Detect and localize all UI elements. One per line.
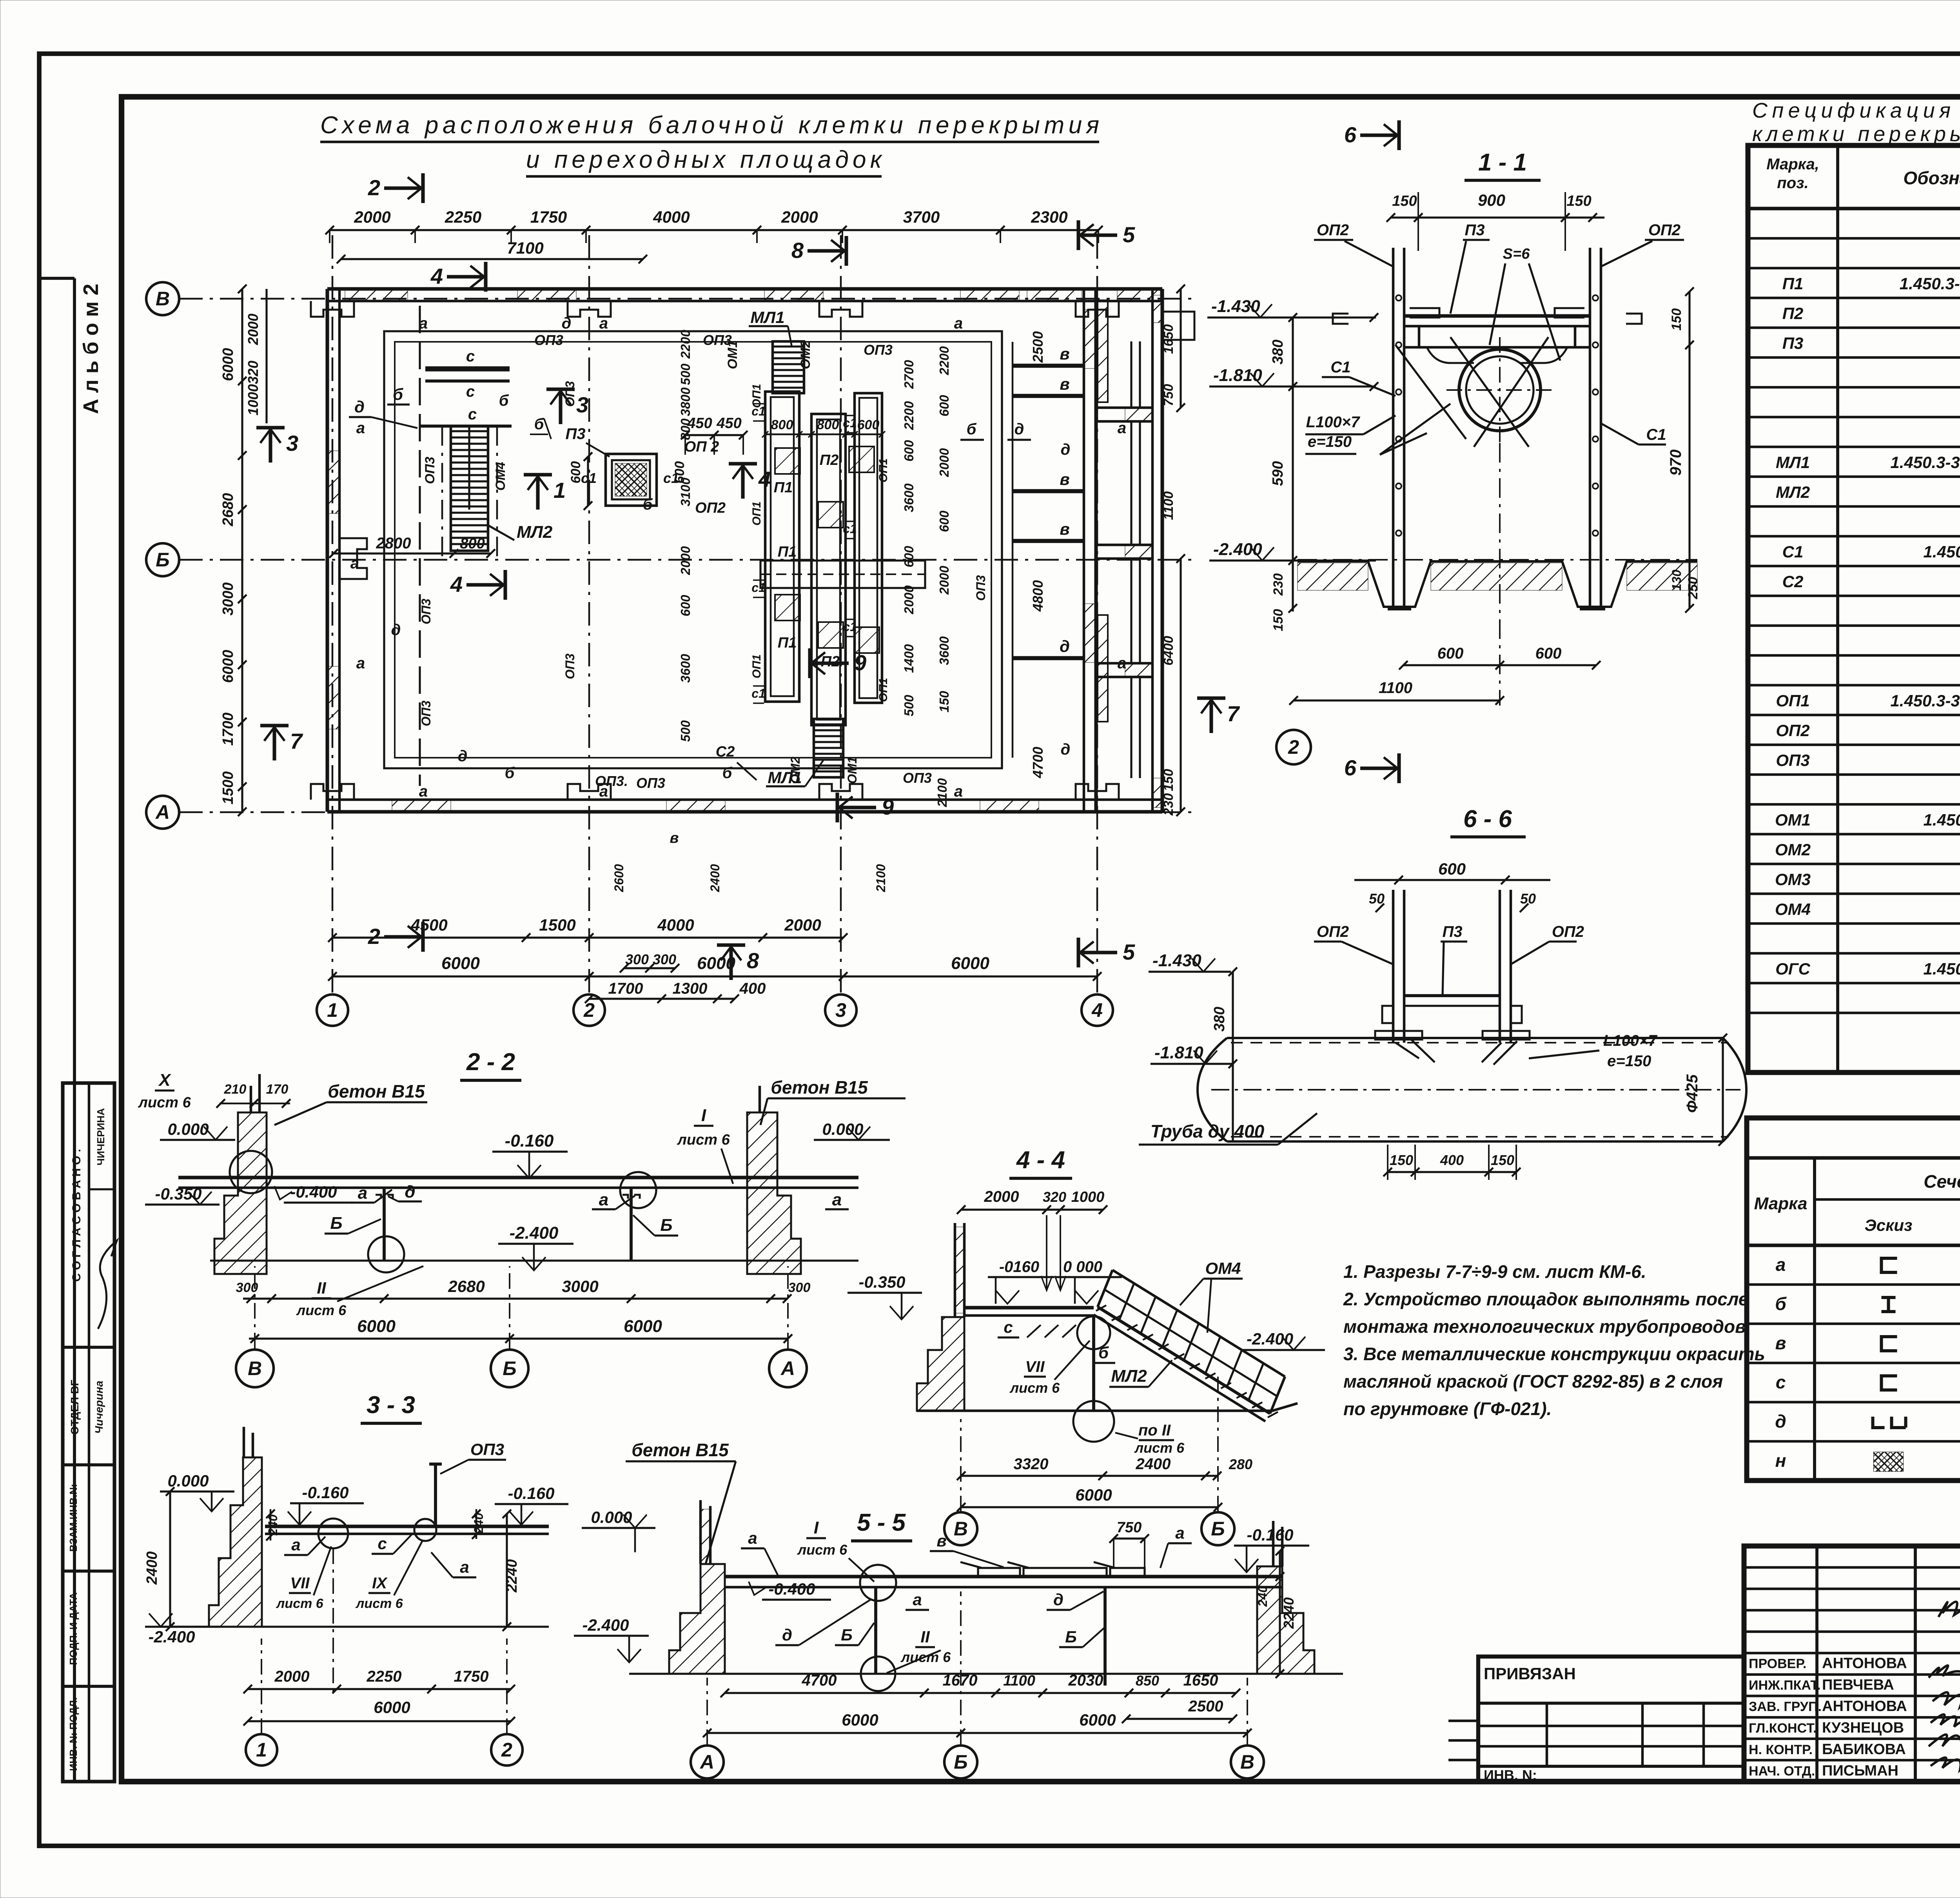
svg-text:ОМ4: ОМ4: [493, 462, 508, 491]
svg-text:а: а: [1776, 1254, 1786, 1275]
annex room divider walls: [1096, 406, 1152, 409]
svg-text:6: 6: [1344, 122, 1357, 147]
svg-text:лист 6: лист 6: [797, 1542, 848, 1558]
svg-text:ЧИЧЕРИНА: ЧИЧЕРИНА: [95, 1108, 107, 1165]
section 3-3 left wall: [209, 1457, 262, 1627]
svg-text:1: 1: [327, 999, 338, 1021]
svg-text:а: а: [599, 1190, 608, 1209]
plan axis bubbles: [146, 282, 179, 315]
svg-text:Обозначение: Обозначение: [1903, 168, 1960, 188]
svg-text:-0.350: -0.350: [858, 1273, 905, 1291]
svg-text:д: д: [1060, 637, 1070, 655]
svg-text:3: 3: [835, 999, 846, 1021]
svg-text:ОП3: ОП3: [903, 770, 932, 786]
svg-text:3600: 3600: [678, 654, 693, 683]
svg-text:800: 800: [817, 417, 839, 432]
svg-text:В: В: [248, 1357, 262, 1379]
svg-text:а: а: [832, 1190, 842, 1209]
svg-text:4000: 4000: [657, 916, 694, 934]
svg-text:3100: 3100: [678, 477, 693, 506]
svg-text:Б: Б: [330, 1214, 342, 1233]
equipment strip rails: [765, 392, 799, 702]
svg-text:-0.160: -0.160: [302, 1483, 348, 1502]
svg-text:380: 380: [1211, 1007, 1228, 1031]
svg-text:1650: 1650: [1183, 1672, 1218, 1689]
svg-text:210: 210: [224, 1082, 247, 1097]
svg-text:ОП3: ОП3: [470, 1440, 504, 1459]
svg-text:1.450.3-3.1 1.1.1.0.0 - 03: 1.450.3-3.1 1.1.1.0.0 - 03: [1890, 453, 1960, 472]
svg-text:Сечение: Сечение: [1924, 1171, 1960, 1192]
svg-text:970: 970: [1667, 450, 1684, 476]
svg-text:лист 6: лист 6: [276, 1596, 324, 1611]
svg-text:МЛ2: МЛ2: [1776, 483, 1810, 501]
svg-text:250: 250: [1686, 577, 1700, 600]
svg-text:по грунтовке (ГФ-021).: по грунтовке (ГФ-021).: [1343, 1399, 1552, 1419]
svg-text:800: 800: [771, 417, 793, 432]
svg-text:П2: П2: [820, 452, 838, 468]
svg-text:Б: Б: [1065, 1628, 1077, 1646]
stair ML1 bottom: [814, 719, 843, 777]
svg-text:с1: с1: [843, 620, 857, 634]
section 6-6 post bases on pipe: [1375, 1031, 1422, 1040]
svg-text:по II: по II: [1138, 1422, 1171, 1439]
svg-text:д: д: [562, 315, 572, 332]
svg-text:ПЕВЧЕВА: ПЕВЧЕВА: [1822, 1677, 1894, 1693]
svg-text:1.450.3-3.1 5.1.0.1.0 - 05: 1.450.3-3.1 5.1.0.1.0 - 05: [1890, 691, 1960, 710]
svg-text:д: д: [354, 397, 365, 416]
svg-text:лист 6: лист 6: [138, 1094, 191, 1111]
svg-text:ОП3: ОП3: [534, 332, 563, 348]
section 1-1 right dims: [1688, 292, 1690, 608]
svg-text:230: 230: [1271, 573, 1286, 596]
svg-text:2030: 2030: [1068, 1672, 1103, 1689]
svg-text:д: д: [405, 1182, 415, 1201]
svg-text:280: 280: [1229, 1456, 1252, 1472]
svg-text:I: I: [701, 1106, 706, 1125]
stair ML1 top: [773, 341, 804, 393]
section 4-4 platform: [964, 1306, 1094, 1309]
svg-text:150: 150: [937, 691, 951, 713]
svg-text:4 - 4: 4 - 4: [1016, 1147, 1065, 1174]
svg-text:500: 500: [902, 695, 916, 717]
svg-text:а: а: [419, 315, 428, 332]
svg-text:б: б: [505, 764, 515, 782]
svg-text:н: н: [1775, 1450, 1786, 1471]
svg-text:6: 6: [1344, 755, 1357, 780]
svg-text:Ф425: Ф425: [1684, 1074, 1701, 1113]
svg-text:600: 600: [1535, 645, 1562, 662]
svg-text:-0.160: -0.160: [508, 1484, 554, 1502]
svg-text:2400: 2400: [144, 1551, 160, 1585]
svg-text:2300: 2300: [1031, 208, 1067, 226]
platform P3 centre: [606, 454, 657, 506]
section 6-6 pipe body: [1227, 1038, 1723, 1141]
svg-text:КУЗНЕЦОВ: КУЗНЕЦОВ: [1822, 1720, 1904, 1736]
svg-text:ОП1: ОП1: [1776, 691, 1809, 710]
svg-text:VII: VII: [1025, 1358, 1045, 1375]
svg-text:в: в: [1060, 520, 1069, 538]
svg-text:-2.400: -2.400: [510, 1223, 559, 1243]
svg-text:ОП3: ОП3: [974, 575, 988, 601]
svg-text:б: б: [967, 421, 977, 438]
svg-text:3: 3: [286, 431, 298, 455]
svg-text:Марка: Марка: [1754, 1194, 1808, 1213]
svg-text:поз.: поз.: [1777, 174, 1808, 192]
svg-text:МЛ2: МЛ2: [1111, 1366, 1147, 1386]
svg-text:ОМ3: ОМ3: [1775, 870, 1811, 889]
svg-text:С2: С2: [716, 744, 735, 760]
svg-text:МЛ2: МЛ2: [517, 523, 553, 542]
svg-text:150: 150: [1271, 609, 1286, 631]
svg-text:5: 5: [1123, 222, 1135, 247]
svg-text:Марка,: Марка,: [1766, 156, 1819, 173]
svg-text:240: 240: [1256, 1586, 1270, 1607]
svg-text:150: 150: [1491, 1152, 1514, 1168]
svg-text:1650: 1650: [1161, 324, 1176, 354]
svg-text:П2: П2: [1782, 304, 1804, 323]
c beams upper-left: [425, 367, 510, 372]
section 4-4 stair MLS2 with railing OM4: [1098, 1307, 1270, 1414]
svg-text:а: а: [748, 1529, 757, 1547]
section 5-5 left wall: [669, 1564, 725, 1674]
svg-text:ОП1: ОП1: [750, 654, 763, 679]
svg-text:3800: 3800: [678, 387, 693, 416]
svg-text:ИНВ. N:: ИНВ. N:: [1484, 1767, 1537, 1783]
svg-text:ОГС: ОГС: [1775, 960, 1810, 978]
svg-text:с1: с1: [843, 416, 857, 430]
svg-text:2200: 2200: [678, 330, 693, 359]
svg-text:ОП3: ОП3: [1776, 751, 1809, 769]
svg-text:А: А: [699, 1751, 714, 1773]
svg-text:6000: 6000: [220, 348, 236, 381]
section 2-2 mid columns: [383, 1188, 386, 1261]
svg-text:150: 150: [1161, 769, 1176, 791]
svg-text:д: д: [458, 748, 468, 765]
svg-text:400: 400: [739, 980, 766, 997]
svg-text:а: а: [1175, 1524, 1184, 1542]
signature squiggle: [98, 1241, 117, 1329]
svg-text:L100×7: L100×7: [1603, 1032, 1658, 1049]
svg-text:ОП3: ОП3: [419, 700, 433, 726]
svg-text:6000: 6000: [1075, 1486, 1112, 1504]
svg-text:600: 600: [1437, 645, 1464, 662]
svg-text:800: 800: [460, 535, 485, 552]
svg-text:6000: 6000: [357, 1317, 396, 1336]
svg-text:-0.400: -0.400: [290, 1183, 337, 1201]
hatched platform squares: [775, 448, 800, 474]
svg-text:с: с: [466, 383, 475, 400]
svg-text:б: б: [393, 385, 403, 403]
svg-text:S=6: S=6: [1503, 246, 1530, 262]
svg-text:ОП2: ОП2: [1648, 221, 1681, 239]
svg-text:1500: 1500: [539, 916, 575, 934]
svg-text:-2.400: -2.400: [1213, 540, 1262, 559]
wall hatched piers: [345, 289, 408, 301]
inner floor edge lines: [384, 331, 1002, 768]
svg-text:6 - 6: 6 - 6: [1463, 806, 1512, 833]
svg-text:Труба ду 400: Труба ду 400: [1151, 1121, 1265, 1141]
svg-text:3 - 3: 3 - 3: [367, 1392, 415, 1419]
svg-text:600: 600: [678, 595, 693, 617]
svg-text:в: в: [670, 830, 679, 846]
privyazan stamp table: [1478, 1657, 1744, 1782]
svg-text:д: д: [1775, 1411, 1786, 1432]
svg-text:АНТОНОВА: АНТОНОВА: [1822, 1655, 1907, 1671]
svg-text:д: д: [1053, 1590, 1063, 1609]
svg-text:ОП3: ОП3: [419, 599, 433, 624]
svg-text:320: 320: [1043, 1189, 1066, 1205]
svg-text:С О Г Л А С О В А Н О :: С О Г Л А С О В А Н О :: [70, 1149, 83, 1282]
svg-text:2600: 2600: [612, 864, 626, 892]
svg-text:-2.400: -2.400: [582, 1616, 629, 1634]
svg-text:4: 4: [430, 264, 443, 289]
svg-text:150: 150: [1390, 1152, 1413, 1168]
svg-text:750: 750: [1117, 1519, 1142, 1536]
svg-text:ОМ1: ОМ1: [1775, 811, 1811, 829]
section 4-4 top dims: [961, 1208, 1103, 1210]
svg-text:ПРИВЯЗАН: ПРИВЯЗАН: [1484, 1664, 1576, 1683]
svg-text:2000: 2000: [781, 208, 818, 226]
svg-text:и переходных площадок: и переходных площадок: [526, 146, 883, 173]
svg-text:ОМ2: ОМ2: [788, 757, 802, 784]
svg-text:2000: 2000: [937, 566, 951, 595]
section 4-4 left stepped wall: [917, 1317, 964, 1411]
svg-text:а: а: [419, 783, 428, 800]
svg-text:1750: 1750: [530, 208, 567, 226]
svg-text:а: а: [599, 315, 608, 332]
section 2-2 floor beam: [178, 1176, 858, 1179]
svg-text:2800: 2800: [376, 535, 411, 552]
svg-text:ОП2: ОП2: [695, 500, 726, 516]
svg-text:2000: 2000: [245, 314, 261, 345]
svg-text:ОТДЕЛ ВГ: ОТДЕЛ ВГ: [69, 1380, 81, 1435]
svg-text:2: 2: [368, 924, 380, 949]
svg-text:9: 9: [882, 795, 894, 819]
svg-text:с1: с1: [751, 686, 766, 700]
svg-text:2100: 2100: [935, 778, 949, 807]
svg-text:7100: 7100: [507, 239, 543, 257]
svg-text:380: 380: [1270, 339, 1286, 364]
svg-text:а: а: [913, 1590, 922, 1609]
svg-text:2500: 2500: [1188, 1698, 1223, 1715]
svg-text:0.000: 0.000: [167, 1120, 209, 1138]
plan bottom dims: [624, 967, 675, 969]
svg-text:ОП3: ОП3: [563, 653, 577, 679]
svg-text:Б: Б: [841, 1626, 853, 1644]
section 2-2 left wall: [214, 1112, 267, 1274]
svg-text:-1.810: -1.810: [1213, 366, 1262, 385]
svg-text:ОП2: ОП2: [1776, 721, 1809, 740]
svg-text:ОП1: ОП1: [877, 678, 890, 702]
svg-text:5: 5: [1123, 940, 1135, 964]
svg-text:2000: 2000: [274, 1668, 310, 1685]
svg-text:6000: 6000: [951, 954, 989, 973]
svg-text:-0.160: -0.160: [1247, 1526, 1293, 1544]
svg-text:АНТОНОВА: АНТОНОВА: [1822, 1698, 1907, 1715]
svg-text:С2: С2: [1782, 572, 1804, 591]
svg-text:Б: Б: [660, 1216, 672, 1235]
svg-text:с: с: [466, 348, 475, 365]
svg-text:ОП2: ОП2: [1552, 923, 1584, 940]
svg-text:П3: П3: [1442, 923, 1462, 940]
section 6-6 platform: [1404, 994, 1500, 997]
svg-text:с: с: [377, 1534, 387, 1553]
svg-text:300: 300: [653, 951, 676, 967]
svg-text:б: б: [643, 496, 653, 513]
svg-text:2680: 2680: [448, 1277, 485, 1296]
svg-text:1000: 1000: [245, 384, 261, 416]
svg-text:б: б: [1775, 1294, 1787, 1314]
svg-text:монтажа технологических труб: монтажа технологических трубопроводов.: [1343, 1316, 1751, 1337]
svg-text:3700: 3700: [903, 208, 940, 226]
svg-text:в: в: [1060, 375, 1069, 393]
specification table: [1748, 145, 1960, 1072]
svg-text:2000: 2000: [678, 546, 693, 575]
svg-text:600: 600: [902, 546, 916, 568]
svg-text:В: В: [156, 288, 170, 310]
svg-text:д: д: [1014, 421, 1024, 438]
svg-text:БАБИКОВА: БАБИКОВА: [1822, 1741, 1906, 1758]
svg-text:д: д: [391, 621, 401, 639]
svg-text:2. Устройство площадок выпо: 2. Устройство площадок выполнять после: [1343, 1289, 1748, 1309]
upper-left partition line: [419, 306, 421, 786]
svg-text:ОП1: ОП1: [877, 458, 890, 483]
svg-text:1700: 1700: [220, 713, 236, 746]
svg-text:230: 230: [1161, 793, 1176, 816]
svg-text:бетон В15: бетон В15: [632, 1440, 729, 1460]
svg-text:д: д: [1061, 441, 1071, 458]
section 5-5 dims: [725, 1692, 1236, 1694]
svg-text:Схема расположения балочной: Схема расположения балочной клетки перек…: [320, 112, 1099, 139]
svg-text:-2.400: -2.400: [1247, 1330, 1293, 1348]
svg-text:150: 150: [1669, 308, 1684, 331]
svg-text:2680: 2680: [220, 493, 236, 527]
svg-text:6400: 6400: [1161, 636, 1176, 666]
svg-text:1400: 1400: [902, 644, 916, 673]
svg-text:б: б: [722, 764, 733, 782]
svg-text:П2: П2: [821, 653, 840, 670]
svg-text:II: II: [317, 1279, 327, 1297]
svg-text:Эскиз: Эскиз: [1865, 1216, 1913, 1234]
svg-text:в: в: [1060, 470, 1069, 488]
svg-text:ОП3: ОП3: [423, 457, 437, 484]
svg-text:Б: Б: [503, 1357, 516, 1379]
svg-text:П1: П1: [778, 544, 797, 560]
svg-text:0.000: 0.000: [822, 1120, 863, 1138]
section 3-3 dims: [248, 1688, 511, 1690]
svg-text:130: 130: [1670, 570, 1684, 591]
svg-text:500: 500: [678, 363, 693, 385]
svg-text:2000: 2000: [984, 1188, 1019, 1205]
svg-text:8: 8: [791, 238, 804, 263]
section 4-4 left thin wall: [954, 1223, 956, 1317]
svg-text:6000: 6000: [842, 1711, 878, 1729]
section 2-2 dims: [243, 1297, 788, 1299]
svg-text:4700: 4700: [1030, 747, 1046, 778]
svg-text:3: 3: [576, 392, 588, 417]
svg-text:590: 590: [1270, 461, 1286, 486]
svg-text:ОП3: ОП3: [703, 332, 732, 348]
svg-text:300: 300: [788, 1280, 811, 1295]
svg-text:П1: П1: [1782, 274, 1804, 293]
svg-text:В: В: [954, 1518, 968, 1540]
plan grid lines: [332, 235, 334, 994]
svg-text:П3: П3: [565, 425, 585, 443]
central dashed band: [760, 561, 925, 588]
section 1-1 title: [1360, 133, 1397, 137]
svg-text:лист 6: лист 6: [677, 1132, 730, 1148]
section 1-1 ground: [1298, 561, 1697, 607]
svg-text:X: X: [158, 1071, 171, 1090]
svg-text:150: 150: [1566, 193, 1591, 209]
svg-text:1100: 1100: [1379, 679, 1412, 697]
svg-text:ГЛ.КОНСТ.: ГЛ.КОНСТ.: [1749, 1721, 1817, 1736]
svg-text:600: 600: [937, 510, 951, 532]
stair ML2 dims: [334, 552, 491, 554]
svg-text:а: а: [954, 315, 963, 332]
svg-text:2: 2: [1288, 736, 1299, 758]
svg-text:1. Разрезы 7-7÷9-9 см. лист: 1. Разрезы 7-7÷9-9 см. лист КМ-6.: [1343, 1261, 1646, 1282]
svg-text:С1: С1: [1782, 543, 1804, 561]
svg-text:а: а: [350, 555, 359, 572]
svg-text:ОП2: ОП2: [1317, 221, 1349, 239]
svg-text:ИНЖ.ПКАТ.: ИНЖ.ПКАТ.: [1749, 1678, 1821, 1693]
annex outer wall: [1151, 289, 1154, 812]
svg-text:II: II: [920, 1628, 930, 1646]
section 1-1 top dims: [1391, 216, 1604, 218]
svg-text:МЛ1: МЛ1: [750, 308, 784, 327]
svg-text:800: 800: [678, 418, 693, 440]
section 3-3 post OP3: [434, 1464, 437, 1526]
svg-text:НАЧ. ОТД.: НАЧ. ОТД.: [1749, 1764, 1815, 1779]
svg-text:П3: П3: [1465, 221, 1485, 239]
svg-text:4: 4: [1091, 999, 1103, 1021]
svg-text:ОП2: ОП2: [1317, 923, 1349, 940]
svg-text:д: д: [782, 1626, 792, 1644]
plan outer walls: [327, 287, 1162, 290]
svg-text:6000: 6000: [624, 1317, 662, 1336]
title block: [1744, 1546, 1960, 1782]
svg-text:б: б: [499, 392, 509, 409]
svg-text:3600: 3600: [937, 636, 951, 665]
svg-text:-0.400: -0.400: [768, 1580, 815, 1598]
left margin divider line: [73, 278, 76, 1782]
svg-text:Б: Б: [954, 1751, 967, 1773]
svg-text:А л ь б о м 2: А л ь б о м 2: [79, 284, 103, 414]
svg-text:Чичерина: Чичерина: [93, 1381, 105, 1434]
svg-text:ЗАВ. ГРУП.: ЗАВ. ГРУП.: [1749, 1699, 1822, 1714]
svg-text:1.450.3-3.1 3.1.0.1.0: 1.450.3-3.1 3.1.0.1.0: [1923, 543, 1960, 561]
svg-text:1300: 1300: [673, 980, 708, 997]
svg-text:ПРОВЕР.: ПРОВЕР.: [1749, 1656, 1806, 1671]
hall beams в near right wall: [1013, 364, 1084, 368]
svg-text:Б: Б: [156, 549, 169, 571]
svg-text:-2.400: -2.400: [148, 1628, 195, 1646]
svg-text:170: 170: [266, 1082, 289, 1097]
section 5-5 mid posts: [874, 1587, 877, 1674]
svg-text:С1: С1: [1646, 426, 1666, 443]
section 5-5 right wall: [1257, 1566, 1314, 1674]
svg-text:1.450.3-3.1 4.1.1.1.0: 1.450.3-3.1 4.1.1.1.0: [1923, 811, 1960, 829]
svg-text:2000: 2000: [784, 916, 821, 934]
svg-text:VII: VII: [290, 1575, 310, 1592]
svg-text:ОП3: ОП3: [864, 342, 893, 358]
svg-text:-0.160: -0.160: [505, 1131, 554, 1150]
section 1-1 posts: [1392, 248, 1395, 608]
svg-text:П1: П1: [778, 635, 797, 651]
svg-text:450: 450: [716, 415, 741, 432]
signatures: [1929, 1666, 1960, 1678]
